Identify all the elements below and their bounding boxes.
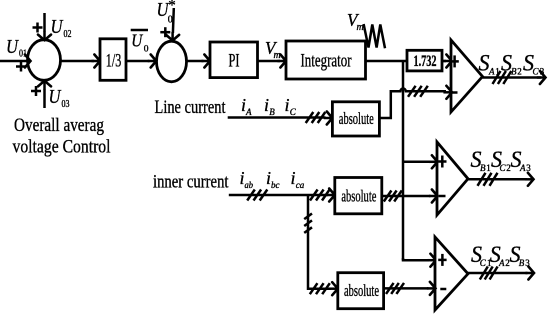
- plus sign U02: [33, 23, 43, 33]
- label U02: [51, 16, 72, 40]
- wire 1/3 to S2: [126, 55, 156, 68]
- wire carrier corner to comparator 3 top input: [403, 254, 436, 267]
- wire S1 to 1/3 block: [61, 55, 101, 68]
- sawtooth carrier symbol: [364, 24, 385, 48]
- block Integrator: [286, 41, 366, 79]
- svg-text:Overall averag: Overall averag: [14, 115, 104, 136]
- wire Integrator to 1.732: [366, 60, 408, 63]
- svg-text:absolute: absolute: [339, 109, 374, 128]
- labels SB1 SC2 SA3: [471, 147, 532, 173]
- caption Overall average voltage Control: [13, 115, 111, 158]
- svg-text:U: U: [49, 86, 62, 108]
- wire carrier to comparator 2 top input: [403, 155, 438, 168]
- svg-text:i: i: [285, 95, 290, 115]
- svg-text:1: 1: [495, 67, 500, 77]
- svg-text:C: C: [290, 107, 297, 117]
- svg-text:0: 0: [144, 45, 149, 55]
- svg-text:voltage Control: voltage Control: [13, 137, 111, 158]
- svg-text:B: B: [480, 163, 486, 173]
- svg-text:inner current: inner current: [153, 172, 229, 193]
- svg-text:i: i: [264, 95, 269, 115]
- plus sign U01: [16, 62, 26, 72]
- svg-text:B: B: [519, 258, 525, 268]
- block absolute 1: [332, 102, 379, 136]
- svg-text:C: C: [480, 258, 487, 268]
- svg-text:2: 2: [517, 67, 522, 77]
- svg-text:absolute: absolute: [341, 186, 376, 205]
- svg-text:1.732: 1.732: [414, 53, 437, 70]
- plus sign U0ref: [160, 27, 170, 37]
- wire S2 to PI: [187, 55, 211, 68]
- svg-text:bc: bc: [271, 181, 280, 191]
- label Vm carrier: [347, 10, 364, 33]
- comparator 1: [451, 40, 483, 112]
- wire U0ref input: [166, 8, 179, 41]
- svg-text:U: U: [51, 16, 64, 38]
- labels iA iB iC: [241, 95, 297, 117]
- label U03: [49, 86, 70, 110]
- svg-text:02: 02: [64, 29, 72, 40]
- svg-text:PI: PI: [229, 51, 240, 72]
- svg-text:3: 3: [540, 67, 545, 77]
- svg-text:U: U: [131, 31, 143, 51]
- svg-text:ca: ca: [296, 181, 305, 191]
- summing junction S2: [157, 41, 187, 82]
- minus sign comparator 2: [439, 195, 446, 198]
- wire absolute 2 to comparator 2: [382, 190, 438, 203]
- labels SA1 SB2 SC3: [479, 51, 545, 77]
- wire comparator 2 output: [468, 173, 534, 186]
- svg-text:3: 3: [525, 258, 530, 268]
- minus sign comparator 1: [452, 91, 458, 94]
- summing junction S1: [28, 40, 61, 81]
- svg-text:i: i: [291, 168, 296, 188]
- wire PI to Integrator: [258, 55, 287, 68]
- svg-text:*: *: [168, 0, 176, 14]
- comparator 2: [437, 142, 468, 215]
- svg-text:A: A: [245, 107, 252, 117]
- carrier vertical wire: [402, 61, 405, 260]
- svg-text:B: B: [269, 107, 275, 117]
- wire absolute 3 to comparator 3: [384, 282, 436, 295]
- minus sign comparator 3: [440, 288, 446, 291]
- svg-text:1/3: 1/3: [106, 50, 122, 71]
- block 1/3: [100, 39, 126, 81]
- plus sign U03: [31, 86, 41, 96]
- wire U03 input: [38, 81, 51, 108]
- label Vm PI output: [265, 38, 281, 61]
- wire line current to absolute 1: [228, 112, 333, 125]
- svg-text:U: U: [6, 36, 19, 58]
- svg-text:A: A: [488, 67, 495, 77]
- block 1.732: [407, 50, 442, 71]
- labels SC1 SA2 SB3: [471, 242, 530, 268]
- wire comparator 1 output: [483, 71, 546, 84]
- branch wire down to absolute 3: [304, 195, 338, 295]
- svg-text:01: 01: [19, 49, 27, 60]
- svg-text:0: 0: [168, 14, 173, 25]
- wire U01 input: [0, 55, 31, 68]
- wire 1.732 to comparator 1: [442, 55, 452, 68]
- label U01: [6, 36, 27, 60]
- label U0ref: [157, 0, 176, 25]
- plus sign comparator 1: [450, 55, 458, 67]
- block absolute 3: [338, 273, 384, 309]
- svg-text:m: m: [357, 22, 364, 33]
- wire absolute 1 to comparator 1 with hop: [379, 86, 452, 118]
- svg-text:C: C: [533, 67, 540, 77]
- svg-text:03: 03: [62, 99, 70, 110]
- labels iab ibc ica: [240, 168, 305, 191]
- label U0 bar: [131, 30, 149, 55]
- wire inner current to absolute 2: [229, 189, 335, 202]
- block PI: [210, 42, 258, 78]
- plus sign comparator 2: [438, 156, 446, 168]
- svg-text:m: m: [274, 50, 281, 61]
- svg-text:A: A: [519, 163, 526, 173]
- svg-text:B: B: [511, 67, 517, 77]
- svg-text:Integrator: Integrator: [301, 51, 352, 72]
- svg-text:ab: ab: [245, 181, 254, 191]
- svg-text:A: A: [498, 258, 505, 268]
- svg-text:absolute: absolute: [344, 281, 379, 300]
- wire U02 input: [38, 13, 51, 40]
- wire comparator 3 output: [468, 267, 534, 280]
- svg-text:3: 3: [526, 163, 531, 173]
- plus sign comparator 3: [438, 254, 446, 266]
- svg-text:Line current: Line current: [155, 97, 227, 118]
- block absolute 2: [335, 178, 382, 214]
- comparator 3: [435, 237, 468, 310]
